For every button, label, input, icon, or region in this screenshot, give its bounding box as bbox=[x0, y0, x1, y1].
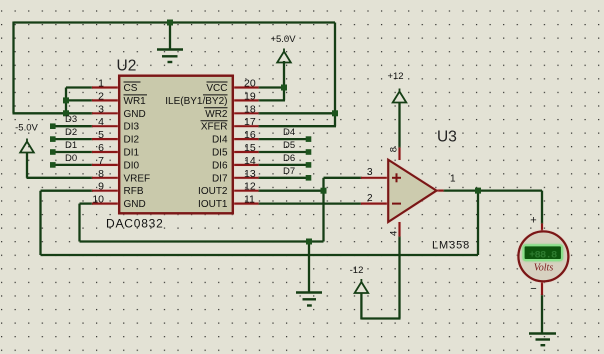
svg-text:D5: D5 bbox=[283, 140, 295, 151]
svg-text:13: 13 bbox=[244, 168, 256, 180]
wire analog ground rail bbox=[80, 240, 324, 242]
wire opamp pin4 down bbox=[398, 236, 400, 319]
junction node opamp output feedback bbox=[475, 188, 481, 194]
svg-text:19: 19 bbox=[244, 90, 256, 102]
svg-text:DI0: DI0 bbox=[124, 160, 140, 171]
wire D4 to DI4 bbox=[258, 138, 306, 140]
wire VCC pin20 bbox=[258, 86, 284, 88]
svg-text:IOUT2: IOUT2 bbox=[198, 186, 228, 197]
wire D1 to DI1 bbox=[54, 151, 93, 153]
wire CS/WR1/GND tie vertical bbox=[65, 88, 67, 114]
wire +5V vertical bbox=[283, 61, 285, 100]
svg-text:D4: D4 bbox=[283, 127, 295, 138]
junction node IOUT2 ground bbox=[321, 188, 327, 194]
DAC0832 U2 body bbox=[119, 76, 233, 214]
voltmeter stubs bbox=[541, 224, 543, 296]
svg-text:U2: U2 bbox=[117, 58, 137, 75]
wire opamp pin3 bbox=[324, 177, 363, 179]
svg-text:10: 10 bbox=[92, 194, 104, 206]
svg-text:VREF: VREF bbox=[124, 173, 151, 184]
wire -5V vertical bbox=[26, 152, 28, 178]
wire GND pin10 bbox=[80, 202, 94, 204]
svg-text:DI3: DI3 bbox=[124, 122, 140, 133]
svg-text:D2: D2 bbox=[65, 127, 77, 138]
terminal D4 bbox=[306, 136, 312, 142]
terminal D5 bbox=[306, 149, 312, 155]
svg-text:Volts: Volts bbox=[534, 263, 554, 274]
svg-text:D6: D6 bbox=[283, 153, 295, 164]
wire right rail vertical bbox=[334, 23, 336, 127]
svg-text:6: 6 bbox=[98, 142, 104, 154]
wire feedback bottom rail bbox=[41, 254, 479, 256]
op-amp minus input sign bbox=[392, 203, 401, 205]
svg-text:2: 2 bbox=[367, 193, 373, 204]
svg-text:1: 1 bbox=[450, 174, 456, 185]
svg-text:+: + bbox=[530, 215, 536, 227]
svg-text:GND: GND bbox=[124, 199, 146, 210]
svg-text:3: 3 bbox=[367, 167, 373, 178]
svg-text:DAC0832: DAC0832 bbox=[106, 217, 164, 231]
svg-text:3: 3 bbox=[98, 103, 104, 115]
wire to pin 1 bbox=[66, 86, 93, 88]
svg-text:14: 14 bbox=[244, 155, 256, 167]
svg-text:-12: -12 bbox=[350, 265, 364, 276]
terminal D6 bbox=[306, 162, 312, 168]
voltmeter body bbox=[518, 231, 568, 281]
wire to pin 3 bbox=[66, 112, 93, 114]
svg-text:2: 2 bbox=[98, 90, 104, 102]
op-amp U3 LM358 triangle bbox=[388, 160, 436, 222]
svg-text:GND: GND bbox=[124, 109, 146, 120]
svg-text:11: 11 bbox=[244, 194, 255, 206]
svg-text:XFER: XFER bbox=[201, 122, 228, 133]
svg-text:+12: +12 bbox=[387, 71, 403, 82]
svg-text:4: 4 bbox=[98, 116, 104, 128]
op-amp plus input sign bbox=[392, 173, 401, 182]
svg-text:16: 16 bbox=[244, 129, 256, 141]
svg-text:4: 4 bbox=[389, 231, 400, 236]
wire IOUT2 pin12 bbox=[258, 190, 324, 192]
svg-text:12: 12 bbox=[244, 181, 256, 193]
svg-text:15: 15 bbox=[244, 142, 256, 154]
DAC0832 U2 pin stubs left bbox=[92, 88, 119, 204]
svg-text:DI6: DI6 bbox=[212, 160, 228, 171]
svg-text:U3: U3 bbox=[437, 129, 457, 146]
terminal D2 bbox=[50, 136, 56, 142]
svg-text:DI5: DI5 bbox=[212, 148, 228, 159]
svg-text:+5.0V: +5.0V bbox=[270, 34, 296, 45]
svg-text:D7: D7 bbox=[283, 166, 295, 177]
voltmeter display bbox=[524, 245, 563, 260]
wire D6 to DI6 bbox=[258, 164, 306, 166]
svg-text:VCC: VCC bbox=[206, 83, 227, 94]
wire left rail vertical bbox=[12, 22, 14, 114]
svg-text:DI4: DI4 bbox=[212, 135, 228, 146]
wire to pin 2 bbox=[66, 99, 93, 101]
wire -5V to VREF pin8 bbox=[27, 177, 94, 179]
wire opamp plus input down vertical bbox=[322, 178, 324, 242]
svg-text:20: 20 bbox=[244, 78, 256, 90]
wire XFER pin17 bbox=[258, 125, 336, 127]
terminal D3 bbox=[50, 123, 56, 129]
power arrow +5.0V bbox=[277, 49, 291, 63]
svg-text:1: 1 bbox=[98, 78, 104, 90]
wire -12 bottom horizontal bbox=[361, 317, 400, 319]
wire top ground rail bbox=[14, 21, 336, 23]
wire left rail to pin3 bbox=[13, 112, 67, 114]
svg-text:8: 8 bbox=[98, 168, 104, 180]
svg-text:18: 18 bbox=[244, 103, 256, 115]
DAC0832 U2 pin stubs right bbox=[233, 88, 259, 204]
wire RFB pin9 bbox=[41, 190, 94, 192]
wire D2 to DI2 bbox=[54, 138, 93, 140]
svg-text:−: − bbox=[530, 283, 536, 295]
svg-text:LM358: LM358 bbox=[432, 240, 470, 252]
svg-text:+88.8: +88.8 bbox=[529, 249, 557, 261]
power arrow -5.0V bbox=[20, 139, 34, 153]
svg-text:CS: CS bbox=[124, 83, 138, 94]
wire +12 to opamp pin8 bbox=[398, 102, 400, 148]
svg-text:IOUT1: IOUT1 bbox=[198, 199, 228, 210]
svg-text:5: 5 bbox=[98, 129, 104, 141]
wire D7 to DI7 bbox=[258, 177, 306, 179]
svg-text:-5.0V: -5.0V bbox=[15, 123, 38, 134]
junction node pin2 tie bbox=[63, 97, 69, 103]
power arrow -12 bbox=[355, 279, 369, 293]
svg-text:WR2: WR2 bbox=[205, 109, 228, 120]
svg-text:DI7: DI7 bbox=[212, 173, 228, 184]
wire ground drop top bbox=[169, 23, 171, 50]
wire feedback right vertical bbox=[477, 191, 479, 255]
wire opamp output bbox=[443, 189, 542, 191]
svg-text:9: 9 bbox=[98, 181, 104, 193]
wire ground drop middle bbox=[308, 242, 310, 293]
ground symbol middle bbox=[296, 293, 322, 306]
svg-text:D3: D3 bbox=[65, 114, 77, 125]
wire pin10 down vertical bbox=[78, 204, 80, 242]
wire D0 to DI0 bbox=[54, 164, 93, 166]
wire voltmeter minus to ground bbox=[541, 294, 543, 334]
junction node top rail / ground bbox=[167, 20, 173, 26]
terminal D7 bbox=[306, 175, 312, 181]
wire D3 to DI3 bbox=[54, 125, 93, 127]
terminal D0 bbox=[50, 162, 56, 168]
svg-text:DI1: DI1 bbox=[124, 148, 140, 159]
junction node analog ground bbox=[306, 239, 312, 245]
svg-text:D1: D1 bbox=[65, 140, 77, 151]
wire IOUT1 to opamp pin2 bbox=[258, 202, 362, 204]
svg-text:17: 17 bbox=[244, 116, 256, 128]
terminal D1 bbox=[50, 149, 56, 155]
power arrow +12 bbox=[393, 89, 407, 103]
junction node pin3 tie bbox=[63, 110, 69, 116]
svg-text:D0: D0 bbox=[65, 153, 77, 164]
svg-text:WR1: WR1 bbox=[124, 96, 147, 107]
op-amp U3 pin stubs bbox=[361, 148, 444, 237]
ground symbol bottom right bbox=[529, 334, 556, 346]
wire WR2 pin18 bbox=[258, 112, 335, 114]
junction node +5V pin20 bbox=[281, 85, 287, 91]
wire ILE pin19 bbox=[258, 99, 285, 101]
svg-text:RFB: RFB bbox=[124, 186, 144, 197]
wire feedback left vertical bbox=[39, 191, 41, 255]
ground symbol top bbox=[157, 50, 183, 63]
junction node WR2 rail bbox=[332, 110, 338, 116]
svg-text:DI2: DI2 bbox=[124, 135, 140, 146]
svg-text:8: 8 bbox=[389, 147, 400, 152]
wire D5 to DI5 bbox=[258, 151, 306, 153]
wire voltmeter plus drop bbox=[541, 191, 543, 224]
svg-text:7: 7 bbox=[98, 155, 104, 167]
wire -12 vertical bbox=[360, 294, 362, 320]
svg-text:ILE(BY1/BY2): ILE(BY1/BY2) bbox=[165, 96, 227, 107]
